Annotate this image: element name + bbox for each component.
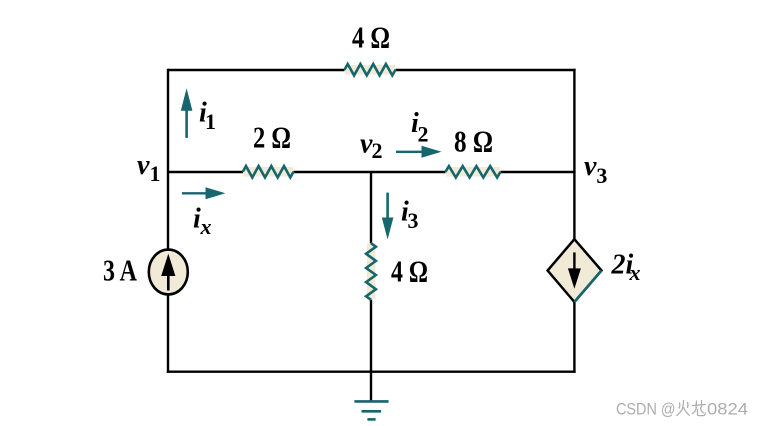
wire bottom horizontal	[167, 371, 576, 373]
svg-text:2: 2	[418, 122, 429, 147]
arrow i2	[396, 151, 422, 153]
svg-text:3 A: 3 A	[103, 253, 137, 288]
ground symbol	[354, 401, 388, 419]
resistor R 4ohm top background	[345, 65, 395, 75]
wire middle horizontal v1 to 2ohm	[168, 171, 243, 173]
dependent source diamond teal edge	[574, 271, 601, 303]
wire middle horizontal 8ohm to v3	[501, 171, 576, 173]
svg-text:x: x	[629, 260, 641, 285]
current source I1 3A ellipse	[149, 250, 188, 295]
arrow i1	[185, 108, 188, 138]
arrow i3	[386, 193, 389, 219]
svg-text:v: v	[137, 150, 150, 181]
svg-text:x: x	[200, 214, 212, 239]
current source I1 arrow	[167, 266, 170, 291]
arrow ix	[182, 192, 207, 194]
resistor R 8ohm background	[446, 167, 500, 177]
svg-text:CSDN @: CSDN @	[616, 400, 676, 419]
svg-text:4 Ω: 4 Ω	[391, 254, 428, 289]
svg-text:4 Ω: 4 Ω	[352, 20, 390, 55]
dependent source arrow	[573, 252, 575, 272]
svg-text:3: 3	[596, 163, 607, 188]
resistor R 4ohm middle background	[367, 244, 376, 300]
resistor R 2ohm background	[244, 167, 294, 177]
svg-text:v: v	[584, 151, 597, 182]
wire top-right horizontal	[396, 69, 576, 71]
wire top-left horizontal	[168, 69, 345, 71]
svg-text:1: 1	[150, 161, 161, 186]
svg-text:2 Ω: 2 Ω	[253, 120, 291, 155]
resistor R 4ohm top zigzag	[345, 64, 396, 75]
svg-text:8 Ω: 8 Ω	[454, 124, 493, 159]
wire middle vertical resistor to ground	[370, 300, 372, 401]
svg-text:2: 2	[372, 138, 383, 163]
wire middle vertical v2 to resistor	[370, 172, 372, 243]
wire middle horizontal 2ohm to 8ohm	[294, 171, 446, 173]
resistor R 8ohm zigzag	[446, 166, 501, 177]
svg-text:0824: 0824	[707, 400, 748, 419]
wire right vertical	[573, 69, 575, 240]
svg-text:3: 3	[408, 208, 419, 233]
resistor R 2ohm zigzag	[243, 166, 294, 177]
dependent source 2ix diamond	[548, 239, 602, 302]
wire left vertical	[167, 69, 169, 249]
svg-text:1: 1	[205, 109, 216, 134]
resistor R 4ohm middle zigzag	[366, 243, 376, 300]
